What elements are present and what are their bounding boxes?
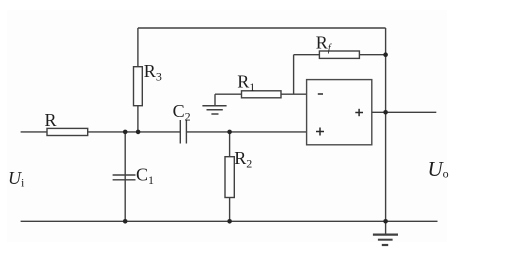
capacitor C2 bbox=[180, 120, 186, 144]
wire R2 branch lower bbox=[229, 198, 231, 222]
svg-text:R2: R2 bbox=[234, 148, 252, 171]
op-amp minus input sign bbox=[318, 93, 323, 95]
node C1 bottom junction bbox=[123, 219, 128, 224]
resistor R1 bbox=[242, 91, 282, 98]
svg-text:C2: C2 bbox=[173, 101, 191, 124]
node ground junction bbox=[383, 219, 388, 224]
wire R1 to op-amp minus input bbox=[281, 93, 307, 95]
resistor R2 bbox=[225, 157, 234, 198]
resistor R bbox=[47, 128, 88, 135]
node Rf output junction bbox=[383, 52, 388, 57]
node R2 top junction bbox=[227, 130, 232, 135]
node R2 bottom junction bbox=[227, 219, 232, 224]
resistor Rf bbox=[319, 51, 359, 58]
resistor R3 bbox=[134, 67, 143, 106]
wire R2 branch upper bbox=[229, 132, 231, 157]
wire R to C2 bbox=[88, 131, 181, 133]
wire bottom rail bbox=[21, 220, 438, 222]
wire C2 to op-amp bbox=[186, 131, 306, 133]
svg-text:R: R bbox=[45, 110, 57, 130]
wire Rf left bbox=[294, 54, 320, 56]
node output junction bbox=[383, 110, 388, 115]
ground G1 bbox=[202, 106, 226, 114]
op-amp plus input sign bbox=[316, 128, 324, 136]
ground G2 bbox=[373, 235, 398, 245]
capacitor C1 bbox=[113, 175, 136, 180]
wire ground stub left bbox=[214, 94, 216, 106]
op-amp output plus sign bbox=[355, 109, 363, 116]
svg-text:Rf: Rf bbox=[316, 33, 332, 55]
wire R3 branch upper bbox=[137, 28, 139, 67]
wire C1 branch vertical bbox=[124, 132, 126, 221]
wire output bbox=[372, 111, 437, 113]
wire ground to R1 bbox=[215, 93, 242, 95]
op-amp U1 bbox=[307, 80, 372, 145]
wire input left bbox=[21, 131, 47, 133]
wire R3 branch lower bbox=[137, 106, 139, 132]
svg-text:Ui: Ui bbox=[8, 168, 25, 190]
wire top rail bbox=[138, 27, 386, 29]
wire feedback vertical bbox=[293, 55, 295, 94]
wire ground stub bottom bbox=[385, 221, 387, 234]
svg-text:Uo: Uo bbox=[428, 157, 449, 181]
wire right vertical bbox=[385, 28, 387, 221]
node R3 junction bbox=[136, 130, 141, 135]
svg-text:C1: C1 bbox=[136, 165, 154, 188]
svg-text:R1: R1 bbox=[237, 72, 255, 95]
node C1 top junction bbox=[123, 130, 128, 135]
svg-text:R3: R3 bbox=[144, 61, 162, 84]
wire Rf right bbox=[359, 54, 385, 56]
